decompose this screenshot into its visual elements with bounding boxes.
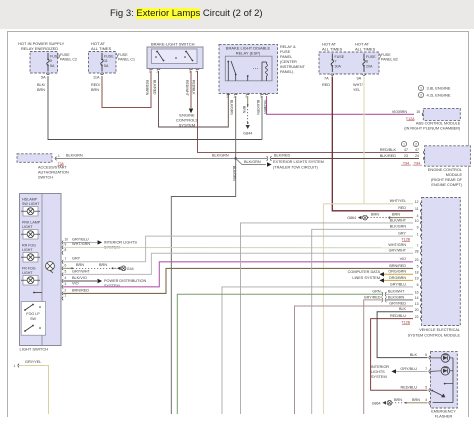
switch blade 1 [157,51,163,60]
switch blade 2 [186,51,192,60]
svg-text:(RIGHT REAR OF: (RIGHT REAR OF [431,178,463,182]
svg-text:PANEL): PANEL) [280,70,294,74]
svg-text:16: 16 [415,291,419,295]
arrow exterior lights [267,162,272,166]
VECM pin 7 WHT/GRN [421,246,422,250]
wire BRN relay pin3 ground [247,96,249,104]
svg-text:FR FOG: FR FOG [22,267,36,271]
wire RED from F7 to VECM pin 11 [332,77,413,211]
svg-text:12: 12 [415,200,419,204]
svg-text:RED/BLK: RED/BLK [192,80,196,95]
ABS pin 15 [422,113,423,117]
svg-text:VIO/BRN: VIO/BRN [263,100,267,114]
svg-text:BLK/GRN: BLK/GRN [244,160,261,164]
VECM pin 23 VIO [421,260,422,264]
vehicle electrical system control module box [422,198,461,326]
svg-text:FUSE: FUSE [381,53,391,57]
svg-text:WHT/GRN: WHT/GRN [72,242,90,246]
svg-text:VIO: VIO [72,282,79,286]
VECM pin 12 WHT/YEL [421,202,422,206]
svg-text:FUSE: FUSE [280,50,291,54]
svg-text:3: 3 [65,282,67,286]
light switch tick [34,292,42,294]
svg-text:BRAKE-LIGHT SWITCH: BRAKE-LIGHT SWITCH [151,42,195,47]
fuse F1 element [47,53,49,59]
svg-text:8: 8 [65,248,67,252]
wire BLK/GRN row from accessory switch to splice [55,158,268,160]
svg-text:1: 1 [58,154,60,158]
wire GRY/BLU to flasher [396,370,428,372]
light switch pin 9 [62,246,63,250]
svg-text:BLK/GRN: BLK/GRN [230,100,234,115]
svg-text:11: 11 [415,207,419,211]
VECM pin 6 GRY/BLU [421,285,422,289]
svg-text:6: 6 [65,263,67,267]
light switch pin 3 [62,285,63,289]
svg-text:SYSTEM: SYSTEM [179,123,195,128]
arrow interior lights (flasher) [391,369,396,373]
svg-text:BRN: BRN [412,398,420,402]
svg-text:FUSE: FUSE [335,55,345,59]
svg-text:LIGHTS: LIGHTS [371,370,385,374]
fog switch blade top [25,305,33,311]
svg-text:1: 1 [234,95,236,99]
svg-text:T94: T94 [414,161,420,165]
svg-text:RED: RED [322,83,330,87]
svg-text:T94: T94 [403,161,409,165]
pin 11A of F2 [100,74,104,75]
svg-text:BLK/GRN: BLK/GRN [390,225,407,229]
svg-text:ENGINE CONTROL: ENGINE CONTROL [428,168,462,172]
svg-text:4.2L ENGINE: 4.2L ENGINE [427,93,451,98]
flasher pin 4 BRN [429,401,430,405]
svg-text:5A: 5A [50,64,55,68]
svg-text:5: 5 [50,59,52,63]
svg-text:9: 9 [417,226,419,230]
svg-text:47: 47 [404,148,408,152]
svg-text:GRY/RED: GRY/RED [364,295,381,299]
svg-text:GRY/BLU: GRY/BLU [72,237,89,241]
svg-text:G844: G844 [243,132,252,136]
svg-text:11: 11 [104,59,108,63]
svg-text:GRY/WHT: GRY/WHT [389,249,407,253]
svg-text:1: 1 [417,232,419,236]
svg-text:1: 1 [14,364,16,368]
engine control module box [425,146,471,166]
light switch box [20,194,62,346]
svg-text:2: 2 [415,143,417,147]
fuse box F2 (hot at all times) [89,52,117,74]
svg-text:RED/BLK: RED/BLK [380,148,397,152]
arrow ORG/BRN [379,278,384,282]
wire GRY/BLU light switch pin 10 [63,241,97,243]
svg-text:GRY/YEL: GRY/YEL [25,360,41,364]
svg-text:SYSTEM: SYSTEM [371,375,387,379]
flasher lamp 2 [441,367,450,376]
svg-text:8: 8 [366,60,368,64]
light switch pin 1 lower connector [18,364,19,368]
arrow to engine controls [189,109,193,114]
arrow interior lights (LS) [98,240,103,244]
wire BRN/RED light switch pin 2 to VECM pin 5 [63,268,413,293]
svg-text:BLK: BLK [399,307,407,311]
svg-text:SYSTEM CONTROL MODULE: SYSTEM CONTROL MODULE [408,334,461,338]
svg-text:RED/BLU: RED/BLU [401,386,418,390]
svg-text:RED/WHT: RED/WHT [185,80,189,96]
hdlamp sw light lamp [23,207,38,217]
svg-text:FUSE: FUSE [366,55,376,59]
VECM pin 1 GRY [421,234,422,238]
wire ORG/GRN to VECM pin 18 [384,273,413,275]
svg-text:1: 1 [65,294,67,298]
svg-text:T12B: T12B [401,238,410,242]
svg-text:T12B: T12B [401,320,410,324]
svg-text:BRN/RED: BRN/RED [389,264,406,268]
svg-text:RED: RED [398,206,406,210]
wire BLK/GRN VECM pin 9 down [312,229,413,414]
svg-text:GRY/BLU: GRY/BLU [400,367,417,371]
wire GRY light switch pin 7 to VECM pin 1 [63,236,413,262]
svg-text:HDLAMP: HDLAMP [22,198,38,202]
svg-text:BRN: BRN [371,213,379,217]
svg-text:MODULE: MODULE [446,173,463,177]
fog lamp switch box [21,302,45,336]
wire BLK/RED from brake switch pin 2 to relay pin 1 [159,71,229,127]
svg-text:INSTRUMENT: INSTRUMENT [280,65,306,69]
svg-text:VIO/BRN: VIO/BRN [392,110,407,114]
VECM pin 4 BRN [421,216,422,220]
svg-text:5: 5 [246,95,248,99]
VECM pin 5 BRN/RED [421,267,422,271]
ECM pin 47 [424,151,425,155]
svg-text:FOG LP: FOG LP [26,312,40,316]
svg-text:BRN: BRN [37,88,45,92]
svg-text:PRK LAMP: PRK LAMP [22,221,41,225]
wire GRN VECM pin 16 [177,294,382,414]
wire VIO light switch pin 3 to VECM pin 23 [63,262,413,287]
wire BLK/GRN after splice row14 [386,299,413,301]
svg-text:24: 24 [415,154,419,158]
light switch inner divider [41,194,43,346]
prk lamp light lamp [23,230,38,240]
light switch pin 4 [62,279,63,283]
fuse box F7 F8 [319,52,379,74]
svg-text:SW: SW [30,317,36,321]
svg-text:5A: 5A [104,64,109,68]
svg-text:LIGHT: LIGHT [22,248,33,252]
wire ORG/BRN to VECM pin 19 [384,279,413,281]
wire RED/WHT from brake switch pin 3 [190,71,192,108]
svg-text:GRY/BLU: GRY/BLU [390,282,406,286]
fr fog light lamp [23,276,38,286]
svg-text:LINES SYSTEM: LINES SYSTEM [352,276,380,280]
svg-text:GRN: GRN [372,290,381,294]
VECM pin 18 ORG/GRN [421,273,422,277]
wire WHT/YEL horizontal to VECM pin 12 and down [324,204,414,414]
svg-text:BLK/GRN: BLK/GRN [232,166,236,181]
wire VIO/BRN relay pin5 to ABS module [267,96,415,114]
splice on BLK/GRN row [267,156,272,161]
legend 3.8L engine [418,85,423,90]
svg-text:19: 19 [415,277,419,281]
wire RED/BRN from F2 to brake light switch pin 1 [102,71,151,108]
svg-text:BLK/RED: BLK/RED [274,154,291,158]
svg-text:23: 23 [404,154,408,158]
svg-text:INTERIOR LIGHTS: INTERIOR LIGHTS [104,240,137,244]
svg-text:RELAY ENERGIZED: RELAY ENERGIZED [21,46,58,51]
svg-text:BRN/RED: BRN/RED [72,288,89,292]
svg-text:YEL: YEL [353,88,360,92]
ground G44 [117,267,121,271]
svg-text:7: 7 [417,244,419,248]
VECM pin 11 RED [421,209,422,213]
relay inner box [225,56,272,81]
pin 5A of F1 [46,74,50,75]
svg-text:(TRAILER TOW CIRCUIT): (TRAILER TOW CIRCUIT) [273,166,319,170]
relay coil [261,62,263,81]
svg-text:9A: 9A [357,77,362,81]
splice row14 [382,298,387,303]
light switch rotary symbol [46,262,55,271]
svg-text:20: 20 [415,308,419,312]
svg-text:1: 1 [403,143,405,147]
svg-text:BLK/GRN: BLK/GRN [388,295,405,299]
svg-text:SWITCH: SWITCH [38,176,53,180]
svg-text:COMPUTER DATA: COMPUTER DATA [348,270,381,274]
svg-text:RED/BLU: RED/BLU [390,314,406,318]
wire BLK/WHT after splice row16 [386,293,413,295]
flasher pin 5 RED/BLU [429,388,430,392]
svg-text:BLK/GRN: BLK/GRN [256,100,260,115]
svg-text:ALL TIMES: ALL TIMES [355,47,376,52]
svg-text:PANEL B2: PANEL B2 [381,58,398,62]
svg-text:2: 2 [420,94,422,98]
svg-text:G864: G864 [372,401,381,405]
fuse F7 element [331,54,333,60]
svg-text:FLASHER: FLASHER [435,415,453,419]
svg-text:2: 2 [65,289,67,293]
wire GRY/RED VECM pin 13 down [295,306,414,414]
svg-text:13: 13 [415,302,419,306]
svg-text:GRY/RED: GRY/RED [389,301,406,305]
svg-text:18: 18 [415,271,419,275]
legend 4.2L engine [418,92,423,97]
svg-text:WHT/: WHT/ [353,83,364,87]
svg-text:1: 1 [420,87,422,91]
svg-text:FUSE: FUSE [118,53,128,57]
light switch pin 1 [62,297,63,301]
svg-text:BRN: BRN [76,263,84,267]
wire BLK/BRN from F1 to relay pin 4 [48,76,262,140]
ABS control module box [423,108,460,120]
pin 9A of F8 [362,74,366,75]
svg-text:GRY: GRY [398,232,406,236]
svg-text:ALL TIMES: ALL TIMES [322,47,343,52]
light switch pin 2 [62,292,63,296]
wire WHT/YEL from F8 [363,77,365,204]
svg-text:BRN: BRN [242,106,246,114]
wire GRY/RED to VECM pin 14 [364,300,382,414]
svg-text:BRN: BRN [394,398,402,402]
svg-text:BLK/VIO: BLK/VIO [72,276,87,280]
svg-text:FUSE: FUSE [104,55,114,59]
brake light switch inner box [152,49,198,64]
svg-text:ORG/BRN: ORG/BRN [389,276,407,280]
svg-text:4: 4 [425,398,427,402]
brake light disable relay box [219,44,278,93]
svg-text:4: 4 [65,276,67,280]
VECM pin 19 ORG/BRN [421,279,422,283]
wire BLK VECM pin 20 to flasher pin 6 [377,312,427,358]
title text [110,8,263,19]
accessory switch pin 1 [55,157,56,161]
svg-text:G44: G44 [127,267,134,271]
wire BLK/GRN relay pin2 down to junction [235,96,237,159]
relay pins [227,94,231,95]
svg-text:RELAY &: RELAY & [280,45,296,49]
svg-text:5: 5 [65,270,67,274]
ECM circled 1 [401,141,406,146]
svg-text:ALL TIMES: ALL TIMES [91,46,112,51]
svg-text:7A: 7A [324,77,329,81]
svg-text:28: 28 [415,249,419,253]
svg-text:T12A: T12A [406,117,415,121]
light switch pin 7 [62,260,63,264]
svg-text:(IN RIGHT PLENUM CHAMBER): (IN RIGHT PLENUM CHAMBER) [404,127,461,131]
svg-text:22: 22 [415,315,419,319]
VECM pin 20 BLK [421,310,422,314]
svg-text:47: 47 [415,148,419,152]
svg-text:EXTERIOR LIGHTS SYSTEM: EXTERIOR LIGHTS SYSTEM [273,160,324,164]
light switch pin 10 [62,241,63,245]
VECM pin 28 GRY/WHT [421,251,422,255]
light switch pin 8 [62,251,63,255]
wire GRY/YEL [19,366,49,415]
title bar [0,0,474,29]
svg-text:VEHICLE ELECTRICAL: VEHICLE ELECTRICAL [419,328,460,332]
svg-text:ENGINE COMPT): ENGINE COMPT) [431,183,462,187]
svg-text:BRN: BRN [392,213,400,217]
fuse F8 element [363,54,365,60]
wire BLK/GRN from junction down-left-down [171,159,235,414]
junction BLK/GRN [235,157,237,159]
emergency flasher switch box [431,352,458,408]
ECM circled 2 [413,141,418,146]
svg-text:BLK/RED: BLK/RED [380,154,397,158]
svg-text:20A: 20A [366,65,373,69]
wire RED/BLK from brake switch pin 4 to ECM pin 47 [198,71,420,152]
svg-text:7: 7 [65,257,67,261]
svg-text:WHT/GRN: WHT/GRN [388,243,406,247]
svg-text:5: 5 [417,265,419,269]
ground G844 [246,125,250,129]
accessory start authorization switch box [17,154,52,163]
svg-text:3.8L ENGINE: 3.8L ENGINE [427,86,451,91]
svg-text:RED/: RED/ [91,83,101,87]
svg-text:5: 5 [425,386,427,390]
svg-text:PANEL C2: PANEL C2 [60,58,77,62]
wire WHT/GRN light switch pin 9 to VECM pin 7 [63,246,413,248]
fuse box F1 (power supply relay) [30,52,58,74]
svg-text:BLK/: BLK/ [37,83,46,87]
arrow power distribution [98,279,103,283]
svg-text:PANEL C1: PANEL C1 [118,58,135,62]
svg-text:10: 10 [65,238,69,242]
flasher switch blade [432,391,443,397]
VECM pin 16 BLK/WHT [421,293,422,297]
svg-text:GRY: GRY [72,257,81,261]
flasher inner bus [452,358,454,403]
svg-text:ACCESS/START: ACCESS/START [38,166,67,170]
svg-text:RED/BRN: RED/BRN [145,80,149,96]
svg-text:11A: 11A [93,76,100,80]
svg-text:7: 7 [335,60,337,64]
svg-text:SW LIGHT: SW LIGHT [22,202,40,206]
svg-text:9: 9 [65,242,67,246]
rr fog light lamp [23,253,38,263]
splice row16 [382,292,387,297]
svg-text:RELAY (ESP): RELAY (ESP) [236,51,261,56]
svg-text:ORG/GRN: ORG/GRN [388,270,406,274]
svg-text:6: 6 [425,353,427,357]
flasher lamp 1 [441,354,450,363]
svg-text:BLK/GRN: BLK/GRN [66,154,83,158]
svg-text:BRN: BRN [99,263,107,267]
svg-text:FUSE: FUSE [60,53,70,57]
svg-text:G864: G864 [347,216,356,220]
wire RED/BLU VECM pin 22 to flasher pin 5 [371,319,428,391]
flasher switch common tap [444,383,446,385]
svg-text:7: 7 [425,367,427,371]
svg-text:GRY/WHT: GRY/WHT [72,269,91,273]
wire BLK/WHT VECM pin 10 down [241,223,414,414]
svg-text:4: 4 [417,214,419,218]
VECM pin 9 BLK/GRN [421,228,422,232]
svg-text:VIO: VIO [400,257,406,261]
VECM pin 22 RED/BLU [421,317,422,321]
wire BLK/GRN relay pin4 to BLK/BRN line [261,96,263,140]
svg-text:BLK/RED: BLK/RED [153,80,157,95]
light switch pin 5 [62,273,63,277]
svg-text:BLK/WHT: BLK/WHT [388,290,405,294]
svg-text:14: 14 [415,296,419,300]
svg-text:BRN: BRN [91,88,99,92]
svg-text:RR FOG: RR FOG [22,244,36,248]
svg-text:WHT/YEL: WHT/YEL [390,199,406,203]
svg-text:30A: 30A [335,65,342,69]
svg-text:POWER DISTRIBUTION: POWER DISTRIBUTION [104,279,146,283]
svg-text:LIGHT: LIGHT [22,225,33,229]
ECM pin 23/24 [424,157,425,161]
svg-text:BLK/WHT: BLK/WHT [390,218,407,222]
arrow ORG/GRN [379,272,384,276]
svg-text:23: 23 [415,258,419,262]
svg-text:EMERGENCY: EMERGENCY [431,410,456,414]
svg-text:ABS CONTROL MODULE: ABS CONTROL MODULE [416,122,461,126]
flasher pin 7 GRY/BLU [429,370,430,374]
wire GRY/WHT light switch pin 5 to VECM pin 28 [63,253,413,274]
svg-text:10: 10 [415,219,419,223]
svg-text:INTERIOR: INTERIOR [371,365,389,369]
brake light switch box [147,47,203,69]
svg-text:BLK: BLK [410,353,418,357]
svg-text:BLK/GRN: BLK/GRN [212,154,229,158]
svg-text:PANEL: PANEL [280,55,292,59]
relay contact [227,62,229,81]
svg-text:LIGHT: LIGHT [22,271,33,275]
fuse F2 element [101,53,103,59]
pin 7A of F7 [331,74,335,75]
